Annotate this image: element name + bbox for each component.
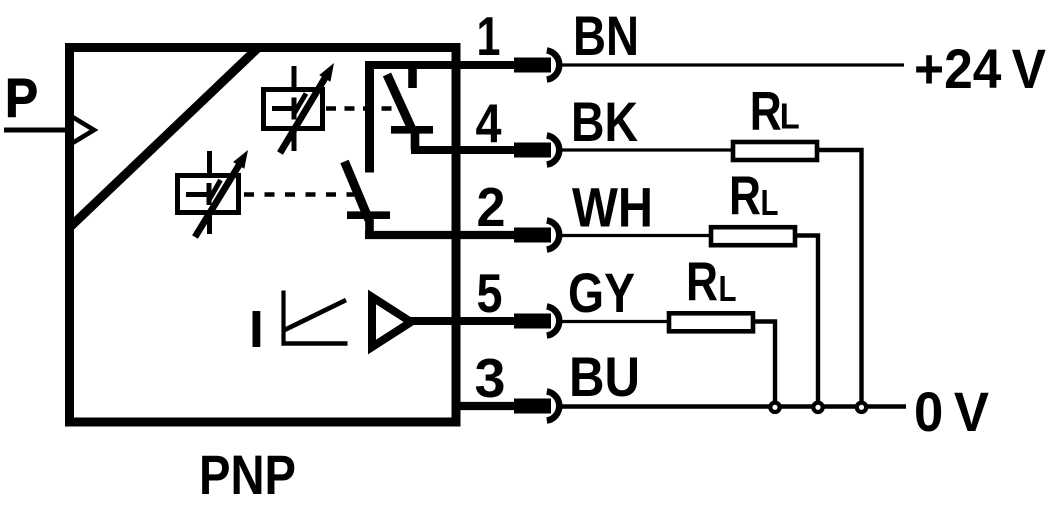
wire pin 3 (internal)	[452, 402, 515, 410]
graph ramp line	[285, 300, 347, 330]
wire pin 4 (internal)	[411, 146, 515, 154]
pin 3 socket arc	[547, 391, 559, 420]
wire GY to resistor	[561, 320, 670, 323]
svg-text:2: 2	[477, 176, 506, 238]
wire BU to 0V	[561, 404, 906, 409]
label I (analog output)	[253, 311, 261, 347]
threshold comparator B (lower)	[178, 151, 239, 234]
adjustment arrow A	[280, 63, 334, 153]
svg-text:WH: WH	[572, 176, 653, 239]
wire RL2 to corner	[795, 233, 820, 237]
svg-text:L: L	[761, 182, 779, 223]
pin 4 socket arc	[547, 135, 559, 164]
svg-text:R: R	[750, 80, 782, 142]
svg-text:BK: BK	[571, 90, 638, 153]
amplifier triangle U1	[372, 297, 411, 347]
graph horizontal axis	[282, 341, 348, 346]
junction J1 (GY to 0V)	[770, 403, 779, 412]
value label RL3	[686, 251, 737, 313]
switch contact S1 lever	[387, 75, 413, 131]
svg-text:3: 3	[475, 347, 506, 409]
wire WH drop	[816, 234, 820, 403]
svg-text:P: P	[5, 67, 38, 129]
value label RL2	[729, 165, 779, 227]
svg-text:5: 5	[477, 262, 503, 324]
junction J3 (BK to 0V)	[857, 403, 866, 412]
svg-text:R: R	[729, 165, 761, 227]
svg-text:1: 1	[477, 5, 501, 67]
dashed control line B	[244, 192, 354, 197]
svg-text:L: L	[780, 96, 800, 137]
pin 2 socket arc	[547, 220, 559, 249]
switch contact S1 fixed stub	[408, 66, 417, 88]
load resistor RL2	[711, 227, 795, 245]
switch contact S2 output stub	[365, 216, 374, 235]
threshold comparator A (upper)	[264, 66, 323, 151]
svg-text:+24 V: +24 V	[914, 37, 1046, 100]
pin 1 socket arc	[547, 50, 559, 79]
P input arrowhead	[73, 117, 95, 143]
wire pin 2 (internal)	[365, 231, 515, 239]
pin 1 plug stub	[514, 58, 551, 73]
svg-text:R: R	[686, 251, 718, 313]
svg-text:PNP: PNP	[199, 443, 296, 506]
wire BN to +24V	[561, 63, 904, 66]
pin 3 plug stub	[514, 399, 551, 414]
svg-text:0 V: 0 V	[914, 380, 989, 443]
wire RL3 to corner	[753, 319, 777, 323]
pin 4 plug stub	[514, 143, 551, 158]
wire BK to resistor	[561, 148, 734, 151]
wire supply rail from pin1	[365, 62, 374, 173]
svg-text:GY: GY	[568, 261, 635, 324]
wire BK drop	[859, 148, 863, 402]
svg-text:BU: BU	[569, 345, 640, 408]
pin 5 socket arc	[547, 306, 559, 335]
value label RL1	[750, 80, 800, 142]
dashed control line A	[326, 106, 394, 111]
svg-text:4: 4	[476, 92, 502, 154]
adjustment arrow B	[195, 150, 248, 237]
wire RL1 to corner	[817, 148, 864, 152]
switch contact S1 output stub	[411, 131, 420, 150]
pin 5 plug stub	[514, 314, 551, 329]
junction J2 (WH to 0V)	[813, 403, 822, 412]
svg-text:BN: BN	[573, 4, 639, 67]
svg-text:L: L	[719, 268, 737, 309]
graph vertical axis	[281, 291, 285, 346]
diagonal separator line	[68, 46, 260, 229]
sensor body box	[70, 48, 457, 423]
wire pin 5 (internal)	[410, 317, 515, 325]
wire P input	[4, 128, 74, 133]
pin 2 plug stub	[514, 228, 551, 243]
wire pin 1 (internal)	[365, 61, 515, 69]
switch contact S2 lever	[345, 162, 370, 221]
wire WH to resistor	[561, 234, 712, 237]
switch contact S1 bar	[391, 126, 433, 134]
switch contact S2 bar	[347, 211, 390, 219]
load resistor RL1	[733, 142, 817, 160]
wire GY drop	[773, 320, 777, 403]
load resistor RL3	[669, 313, 753, 331]
